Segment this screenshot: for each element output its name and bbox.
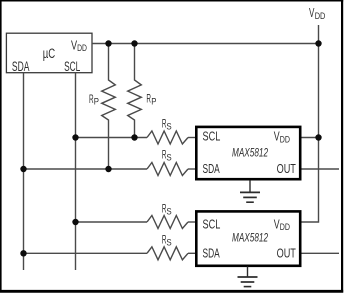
wire SDA branch to RS4 — [24, 252, 148, 254]
wire RS2 to U2 SDA pin — [188, 168, 195, 170]
junction RP2 / SCL branch 1 — [131, 134, 137, 140]
ground (U3 GND) — [238, 267, 258, 287]
label RS1 — [162, 117, 172, 131]
junction SDA bus / SDA branch 1 — [20, 166, 26, 172]
microcontroller U1 (µC) box — [6, 33, 92, 72]
svg-text:SCL: SCL — [64, 59, 81, 74]
svg-text:SCL: SCL — [203, 216, 221, 231]
svg-text:S: S — [166, 206, 171, 216]
junction VDD rail / VDD vertical — [315, 40, 321, 46]
junction RP1 / SDA branch 1 — [105, 166, 111, 172]
svg-text:S: S — [166, 238, 171, 248]
junction U2 VDD / VDD vertical — [315, 134, 321, 140]
svg-text:P: P — [94, 97, 99, 107]
wire U2 OUT — [301, 168, 339, 170]
DAC U3 MAX5812 box — [196, 211, 300, 265]
junction SDA bus / SDA branch 2 — [20, 250, 26, 256]
svg-text:DD: DD — [280, 133, 290, 144]
svg-text:OUT: OUT — [277, 245, 296, 260]
resistor RS3 (series, SCL of U3) — [147, 216, 188, 229]
svg-text:µC: µC — [43, 46, 56, 61]
label RP1 — [89, 93, 99, 107]
svg-text:S: S — [166, 153, 171, 163]
wire SDA branch to RS2 — [24, 168, 148, 170]
svg-text:DD: DD — [280, 221, 290, 232]
svg-text:OUT: OUT — [277, 161, 296, 176]
label RP2 — [146, 93, 156, 107]
svg-text:SDA: SDA — [203, 161, 220, 176]
label RS4 — [162, 234, 172, 248]
svg-text:P: P — [151, 97, 156, 107]
wire VDD rail horizontal from µC to right — [92, 43, 319, 45]
junction VDD rail / RP1 — [105, 40, 111, 46]
wire RS3 to U3 SCL pin — [188, 221, 195, 223]
wire VDD rail vertical down to U3 VDD pin — [301, 25, 319, 222]
wire U2 VDD pin to VDD rail — [301, 137, 319, 139]
wire SCL vertical bus — [75, 73, 77, 270]
svg-text:MAX5812: MAX5812 — [232, 231, 268, 245]
resistor RP2 (pull-up) with leads — [128, 44, 142, 138]
label RS2 — [162, 149, 172, 163]
wire SCL branch to RS3 — [76, 221, 148, 223]
junction SCL bus / SCL branch 2 — [72, 219, 78, 225]
svg-text:SDA: SDA — [203, 245, 220, 260]
pin label VDD (µC) — [71, 37, 87, 54]
label RS3 — [162, 202, 172, 216]
node VDD (top right supply) — [309, 5, 325, 22]
resistor RS1 (series, SCL of U2) — [147, 131, 188, 144]
svg-text:DD: DD — [77, 43, 87, 54]
svg-text:SCL: SCL — [203, 129, 221, 144]
pin label VDD (U2) — [274, 130, 290, 145]
wire SDA vertical bus — [23, 73, 25, 270]
resistor RS4 (series, SDA of U3) — [147, 247, 188, 260]
svg-text:R: R — [146, 93, 151, 106]
svg-text:S: S — [166, 121, 171, 131]
wire SCL branch to RS1 — [76, 137, 148, 139]
ground (U2 GND) — [240, 180, 260, 202]
resistor RS2 (series, SDA of U2) — [147, 163, 188, 176]
svg-text:MAX5812: MAX5812 — [232, 146, 268, 160]
resistor RP1 (pull-up) with leads — [102, 44, 116, 170]
svg-text:DD: DD — [315, 11, 326, 22]
wire U3 OUT — [301, 252, 339, 254]
svg-text:SDA: SDA — [12, 59, 30, 74]
DAC U2 MAX5812 box — [196, 127, 300, 179]
pin label VDD (U3) — [274, 217, 290, 232]
wire RS1 to U2 SCL pin — [188, 137, 195, 139]
junction VDD rail / RP2 — [131, 40, 137, 46]
junction SCL bus / SCL branch 1 — [72, 134, 78, 140]
wire RS4 to U3 SDA pin — [188, 252, 195, 254]
